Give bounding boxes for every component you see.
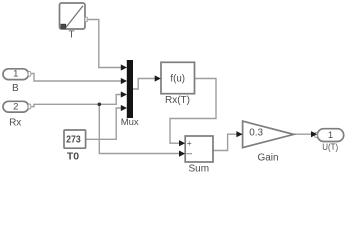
svg-text:0.3: 0.3 (249, 128, 263, 139)
svg-text:U(T): U(T) (322, 142, 338, 153)
svg-text:Rx: Rx (9, 118, 21, 129)
svg-text:Mux: Mux (121, 117, 139, 128)
svg-text:T0: T0 (67, 151, 79, 163)
svg-text:Gain: Gain (257, 153, 278, 164)
svg-text:f(u): f(u) (170, 72, 185, 84)
svg-text:273: 273 (66, 134, 81, 146)
svg-text:+: + (187, 138, 192, 148)
svg-text:T: T (68, 30, 74, 41)
svg-text:1: 1 (13, 69, 18, 80)
svg-text:–: – (186, 148, 192, 159)
svg-text:2: 2 (13, 102, 18, 113)
svg-text:Sum: Sum (189, 164, 210, 175)
svg-text:B: B (12, 83, 19, 94)
svg-text:Rx(T): Rx(T) (165, 95, 190, 106)
svg-text:1: 1 (328, 130, 333, 141)
